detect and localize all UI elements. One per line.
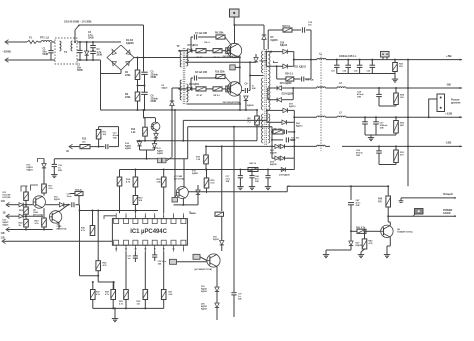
wire Q2 emitter <box>238 93 240 96</box>
svg-text:Q4 C945(KT3117A): Q4 C945(KT3117A) <box>194 268 212 271</box>
svg-text:KД521: KД521 <box>201 308 208 310</box>
capacitor C9 <box>249 62 251 90</box>
diode D14 <box>137 142 141 146</box>
resistor R3b <box>226 86 229 92</box>
connector pg box <box>415 209 424 215</box>
resistor R31b <box>163 252 165 290</box>
transformer T2 core <box>182 48 184 105</box>
svg-text:11B: 11B <box>1 238 5 240</box>
svg-text:+5B: +5B <box>446 54 452 58</box>
filter T1 winding a <box>60 41 62 51</box>
svg-text:R34 5.1: R34 5.1 <box>285 73 294 76</box>
diode D13 <box>12 215 19 217</box>
wire T2 row2 return <box>186 103 240 105</box>
svg-text:Общий: Общий <box>443 192 453 196</box>
diode D21 <box>277 86 282 90</box>
line filter T1 box <box>55 38 77 64</box>
svg-text:KC212Ж: KC212Ж <box>3 197 11 199</box>
capacitor C20 <box>301 77 303 82</box>
resistor R14 <box>133 177 138 187</box>
rail -5V <box>346 87 462 89</box>
wire bridge minus <box>120 70 122 74</box>
resistor R23 <box>43 208 45 218</box>
svg-text:~220B: ~220B <box>2 50 12 54</box>
diode D15 <box>59 203 63 207</box>
ground common hook <box>400 198 402 201</box>
svg-text:1m: 1m <box>128 258 131 260</box>
diode D26 <box>86 41 88 43</box>
wire r11 top rail <box>99 126 119 128</box>
svg-text:C8 1н0 10B: C8 1н0 10B <box>195 72 207 74</box>
resistor R6b <box>213 87 222 91</box>
wire Q2 collector link <box>238 83 240 85</box>
diode D27 <box>350 230 352 232</box>
IC1 top pins <box>114 219 119 224</box>
svg-text:350B: 350B <box>88 37 94 40</box>
wire q7 emitter to pins <box>182 198 184 205</box>
capacitor C2 <box>79 41 81 43</box>
svg-text:KД208: KД208 <box>270 152 277 154</box>
transistor Q1 <box>227 43 241 57</box>
svg-text:KД521: KД521 <box>201 291 208 293</box>
wire long rail 170 <box>120 169 295 171</box>
resistor R34 <box>161 177 166 187</box>
resistor R11 <box>98 127 100 130</box>
ground gnd2 <box>370 135 372 138</box>
svg-text:Разъем: Разъем <box>451 100 460 102</box>
resistor R16 <box>25 186 27 192</box>
svg-text:+12B: +12B <box>445 111 453 115</box>
svg-text:IC1 µPC494C: IC1 µPC494C <box>130 229 167 235</box>
svg-text:KД521: KД521 <box>27 170 34 172</box>
wire row 2105 <box>80 210 159 212</box>
display connector <box>437 94 445 112</box>
diode D24 <box>272 157 275 159</box>
transformer T3 primary <box>262 51 264 73</box>
resistor R1 <box>137 58 139 71</box>
fuse F1 <box>27 40 39 43</box>
connector to mains box <box>230 9 240 17</box>
node input 11V b <box>6 227 10 232</box>
wire hv bus vertical <box>143 25 145 72</box>
wire totem upper <box>239 57 241 67</box>
wire totem lower <box>239 67 241 83</box>
resistor R6 <box>213 49 222 53</box>
resistor R10 <box>216 74 225 78</box>
resistor R26c <box>96 261 101 271</box>
svg-text:50B: 50B <box>255 181 259 183</box>
resistor R35 <box>204 178 209 188</box>
resistor R3 <box>226 48 229 54</box>
resistor R13 <box>144 118 146 128</box>
wire un node <box>90 146 100 148</box>
wire q4 emitter chain <box>216 267 218 288</box>
diode D23 <box>272 145 275 147</box>
node AC input terminal N <box>5 58 9 63</box>
switch S1 <box>74 41 76 43</box>
svg-text:16B: 16B <box>158 263 162 265</box>
snubber C19 <box>301 27 303 32</box>
wire Q1 collector <box>234 25 236 44</box>
svg-text:T1: T1 <box>64 50 68 54</box>
transformer T2 secondary <box>186 50 187 66</box>
svg-text:KД206: KД206 <box>260 61 267 63</box>
wire v282 <box>113 282 115 290</box>
resistor R42 <box>364 230 366 232</box>
inductor T4 winding c <box>317 116 326 117</box>
resistor R8 <box>196 87 206 91</box>
wire ic top stubs <box>115 213 117 218</box>
svg-text:R19 2k: R19 2k <box>75 190 83 192</box>
node input 11V a <box>6 202 10 207</box>
transformer T3 secondary <box>268 51 270 110</box>
jumper box a <box>170 259 177 264</box>
resistor R17 <box>42 184 47 193</box>
inductor T4 core <box>320 54 322 151</box>
hook c <box>38 159 45 163</box>
svg-text:KД521: KД521 <box>162 87 169 89</box>
resistor R41 <box>357 229 366 233</box>
wire vertical 221 <box>221 146 223 211</box>
diode D25 <box>255 54 257 58</box>
capacitor C6 <box>141 91 147 93</box>
svg-text:R43 1k: R43 1k <box>250 162 257 165</box>
diode D10 <box>283 49 288 54</box>
rail170 parts resistor R43 <box>248 168 258 172</box>
diode D18b <box>220 241 224 245</box>
jumper box b <box>193 254 200 259</box>
capacitor C32 <box>152 254 157 256</box>
rail +12V <box>346 116 462 118</box>
inductor TR1 <box>39 41 42 43</box>
svg-text:KД521: KД521 <box>54 199 61 201</box>
resistor R22 <box>25 205 27 207</box>
capacitor C23 <box>336 59 338 61</box>
wire Q8 emitter <box>389 237 391 246</box>
svg-text:C7 1н0 10B: C7 1н0 10B <box>195 33 207 35</box>
svg-text:KД521: KД521 <box>192 173 199 175</box>
wire bottom bus 308 <box>93 307 164 309</box>
svg-text:10н 1кB: 10н 1кB <box>306 80 314 82</box>
diode D20 <box>282 120 287 125</box>
resistor R25 <box>25 216 27 219</box>
svg-text:R4 u1: R4 u1 <box>204 41 210 44</box>
wire Q8 base <box>351 230 357 232</box>
capacitor C44 <box>251 169 253 171</box>
transistor Q3 <box>151 122 160 131</box>
resistor R19 <box>75 191 83 195</box>
transistor Q5 <box>33 196 45 208</box>
svg-text:-12B: -12B <box>445 141 452 145</box>
diode D12 <box>12 204 19 206</box>
diode D19b <box>215 287 219 291</box>
wire ic bottom stubs <box>115 245 117 251</box>
wire common vertical <box>407 59 409 61</box>
svg-text:500B: 500B <box>43 53 49 56</box>
wire h282 <box>98 281 114 283</box>
node input 11V c <box>2 239 6 244</box>
resistor R4 <box>256 109 258 111</box>
svg-text:D11 KД213: D11 KД213 <box>294 67 306 69</box>
diode D16 <box>43 159 45 164</box>
transistor Q7 <box>176 187 188 199</box>
wire rail 1917 <box>188 191 287 193</box>
wire c13 up <box>118 127 120 147</box>
svg-text:10B: 10B <box>226 181 230 183</box>
svg-text:(KT3117A): (KT3117A) <box>57 228 67 231</box>
transistor Q2 <box>227 82 241 96</box>
rail -12V <box>342 145 462 147</box>
svg-text:1000mk 10B 4 x: 1000mk 10B 4 x <box>339 55 357 58</box>
svg-text:KД213: KД213 <box>296 125 303 127</box>
resistor R21 <box>117 177 122 186</box>
wire q6 collector diag <box>59 205 68 212</box>
wire feedback line2 <box>188 126 272 128</box>
op-amp IC1 uPC494C body <box>112 219 187 246</box>
capacitor C3 <box>92 41 94 43</box>
wire -12 rect junction <box>293 122 295 158</box>
resistor R15 <box>205 146 207 155</box>
wire long rail 159 <box>54 158 187 160</box>
diode D5 <box>263 25 265 35</box>
ground gnd1 <box>394 77 396 80</box>
wire r13 node <box>143 110 145 118</box>
svg-text:50B: 50B <box>58 170 62 172</box>
ground gnd4 <box>360 252 362 255</box>
junction box q7 <box>172 198 178 203</box>
wire osc row2 <box>178 88 180 90</box>
wire osc row1 <box>178 50 180 52</box>
wire T3 minus5 taps <box>268 87 274 89</box>
wire bus midpoint <box>138 85 145 87</box>
inductor L3 <box>337 87 346 88</box>
transistor Q4 <box>207 254 220 267</box>
svg-text:R7 47: R7 47 <box>197 94 203 97</box>
svg-text:R20 5.1: R20 5.1 <box>283 26 292 28</box>
capacitor C4 <box>92 50 94 52</box>
svg-text:350B: 350B <box>97 54 103 57</box>
wire +12 bottom <box>365 134 396 136</box>
wire q4 links <box>200 257 207 261</box>
svg-text:10B: 10B <box>252 88 256 90</box>
wire Q8 collector <box>389 222 391 226</box>
wire +12 rect junction <box>293 110 295 122</box>
svg-text:10B: 10B <box>380 128 384 130</box>
wire primary return bus <box>101 109 258 111</box>
svg-text:R9 220k: R9 220k <box>215 33 224 35</box>
wire -5 bottom <box>379 105 396 107</box>
capacitor C27b <box>375 116 377 118</box>
ground gnd5 <box>325 252 327 255</box>
svg-text:KД213: KД213 <box>280 45 288 47</box>
wire r15 rail <box>206 145 272 147</box>
wire +5 rect junction <box>293 52 295 67</box>
capacitor C47 <box>348 202 354 204</box>
capacitor C26 <box>371 59 373 61</box>
wire T2 pin4 line <box>185 61 250 63</box>
svg-text:1B: 1B <box>3 211 6 214</box>
resistor R2 <box>137 80 139 93</box>
svg-text:KД521: KД521 <box>213 239 220 241</box>
diode D9 <box>170 101 175 106</box>
svg-text:500B: 500B <box>77 69 83 72</box>
svg-text:D7 KД511: D7 KД511 <box>188 45 199 47</box>
wire T3 primary feed <box>249 75 251 77</box>
wire left drop 99 <box>97 211 99 261</box>
resistor R31 <box>395 145 397 147</box>
resistor R47 <box>272 131 273 133</box>
svg-text:220k: 220k <box>125 96 131 99</box>
resistor R30b <box>144 252 146 290</box>
wire cap bank bottom <box>337 73 395 75</box>
svg-text:250B: 250B <box>151 100 157 103</box>
svg-text:дисплея: дисплея <box>451 103 461 105</box>
svg-text:KД206: KД206 <box>271 40 279 42</box>
capacitor C43 <box>239 169 241 171</box>
resistor R28b <box>111 290 116 300</box>
resistor R26 <box>394 59 396 61</box>
connector current sense box <box>230 65 235 70</box>
svg-text:47mk: 47mk <box>113 134 119 137</box>
wire feedback to pg <box>287 185 351 187</box>
resistor R7 <box>196 49 206 53</box>
wire -12 bottom <box>379 164 396 166</box>
capacitor C7 <box>190 50 192 52</box>
svg-text:R47 100: R47 100 <box>274 128 283 131</box>
node sense input Un <box>69 144 73 149</box>
wire control bus <box>144 140 146 142</box>
svg-text:KД521: KД521 <box>157 153 164 155</box>
diode D15m <box>152 144 156 148</box>
capacitor C1 <box>48 50 53 52</box>
resistor R30 <box>395 116 397 118</box>
svg-text:S1/140 250B - 10 125B: S1/140 250B - 10 125B <box>64 19 91 23</box>
wire ic pin1 hook <box>104 216 116 219</box>
snubber R20 <box>267 30 269 50</box>
svg-text:D18 KД208: D18 KД208 <box>279 174 290 176</box>
svg-text:11B: 11B <box>1 233 5 235</box>
capacitor C8 <box>190 88 192 90</box>
wire T2 pin3 line <box>183 56 240 58</box>
resistor R32 <box>133 196 138 205</box>
resistor R27 <box>92 282 94 290</box>
capacitor C21 <box>272 139 283 141</box>
svg-text:50B: 50B <box>238 298 242 300</box>
capacitor C29 <box>378 145 380 147</box>
wire hv rail to D5 <box>234 24 264 26</box>
wire power good line <box>387 215 389 217</box>
resistor R12 <box>80 145 90 149</box>
capacitor C37 <box>231 292 236 294</box>
capacitor C27a <box>364 116 366 118</box>
inductor T4 winding b <box>317 87 326 88</box>
diode D20b <box>215 303 219 307</box>
transformer T2 primary <box>180 51 181 67</box>
wire row 2047 <box>45 204 59 206</box>
capacitor C16 <box>53 159 55 165</box>
wire ic right hook <box>190 211 196 213</box>
hook a <box>21 186 28 192</box>
ground gnd3 <box>386 252 388 255</box>
svg-text:470mk: 470mk <box>356 152 363 155</box>
wire feedback line1 <box>183 119 267 121</box>
wire pg node <box>387 185 389 187</box>
wire common output <box>401 197 455 199</box>
ground gnd6 <box>114 308 116 316</box>
diode D19 <box>283 108 288 113</box>
wire diode join <box>140 149 155 151</box>
svg-text:25B: 25B <box>356 205 360 207</box>
svg-text:KД521: KД521 <box>3 224 10 226</box>
wire q7 collector <box>183 159 185 187</box>
resistor R29 <box>125 252 127 290</box>
svg-text:C945(KT3117A): C945(KT3117A) <box>397 231 413 234</box>
capacitor C31 <box>133 255 138 257</box>
hook b <box>31 185 39 191</box>
wire AC neutral to bus <box>99 59 102 61</box>
svg-text:(KT3117A): (KT3117A) <box>174 178 184 181</box>
wire snubber bus <box>189 140 257 142</box>
diode D22 <box>277 98 282 102</box>
svg-text:R8 2.2: R8 2.2 <box>214 95 221 97</box>
wire row step <box>79 205 81 211</box>
resistor R36 <box>215 212 224 216</box>
resistor R27c <box>92 211 94 226</box>
transistor Q8 <box>381 225 393 237</box>
transistor Q6 <box>49 211 61 223</box>
svg-text:KД521: KД521 <box>125 148 132 150</box>
svg-text:R41 4.7k: R41 4.7k <box>356 226 366 229</box>
diode D15q <box>155 131 157 134</box>
wire T1 to doubler <box>52 41 55 43</box>
capacitor C22 <box>283 130 285 134</box>
svg-text:11B: 11B <box>1 200 5 203</box>
wire vertical 2355 <box>233 127 235 292</box>
filter T1 winding b <box>71 41 73 51</box>
svg-text:4.7m: 4.7m <box>356 202 361 205</box>
svg-text:KД522: KД522 <box>356 245 363 247</box>
capacitor C28 <box>378 87 380 89</box>
wire q6 emitter <box>58 222 60 229</box>
capacitor C45 <box>267 169 269 171</box>
wire snubber2 vertical <box>310 60 312 79</box>
wire D9 branch <box>171 106 173 158</box>
diode D11 <box>283 64 288 69</box>
svg-text:16B: 16B <box>356 155 360 157</box>
transformer T3 core <box>264 49 266 145</box>
zener D17b <box>196 190 200 194</box>
wire left drop 80 <box>79 211 81 276</box>
diode D6 <box>244 96 248 100</box>
wire 110V select rail <box>79 24 144 26</box>
node AC input terminal L <box>5 40 9 45</box>
IC1 bottom pins <box>114 240 119 245</box>
resistor R28 <box>395 87 397 89</box>
wire -5 rect junction <box>292 88 294 100</box>
trim boxes <box>158 158 162 163</box>
svg-text:D21 KД208: D21 KД208 <box>280 83 292 85</box>
bridge rectifier D1-D4 <box>107 45 134 70</box>
wire bridge plus <box>134 57 180 59</box>
wire T3 sec plus5 taps <box>265 51 267 53</box>
inductor L2 <box>337 116 346 117</box>
diode D7 <box>188 49 192 53</box>
resistor R34s <box>276 66 278 79</box>
svg-text:D22 KД208: D22 KД208 <box>282 93 294 95</box>
node input 1V <box>6 214 10 219</box>
capacitor C25 <box>359 59 361 61</box>
svg-text:R10 220k: R10 220k <box>215 72 225 74</box>
